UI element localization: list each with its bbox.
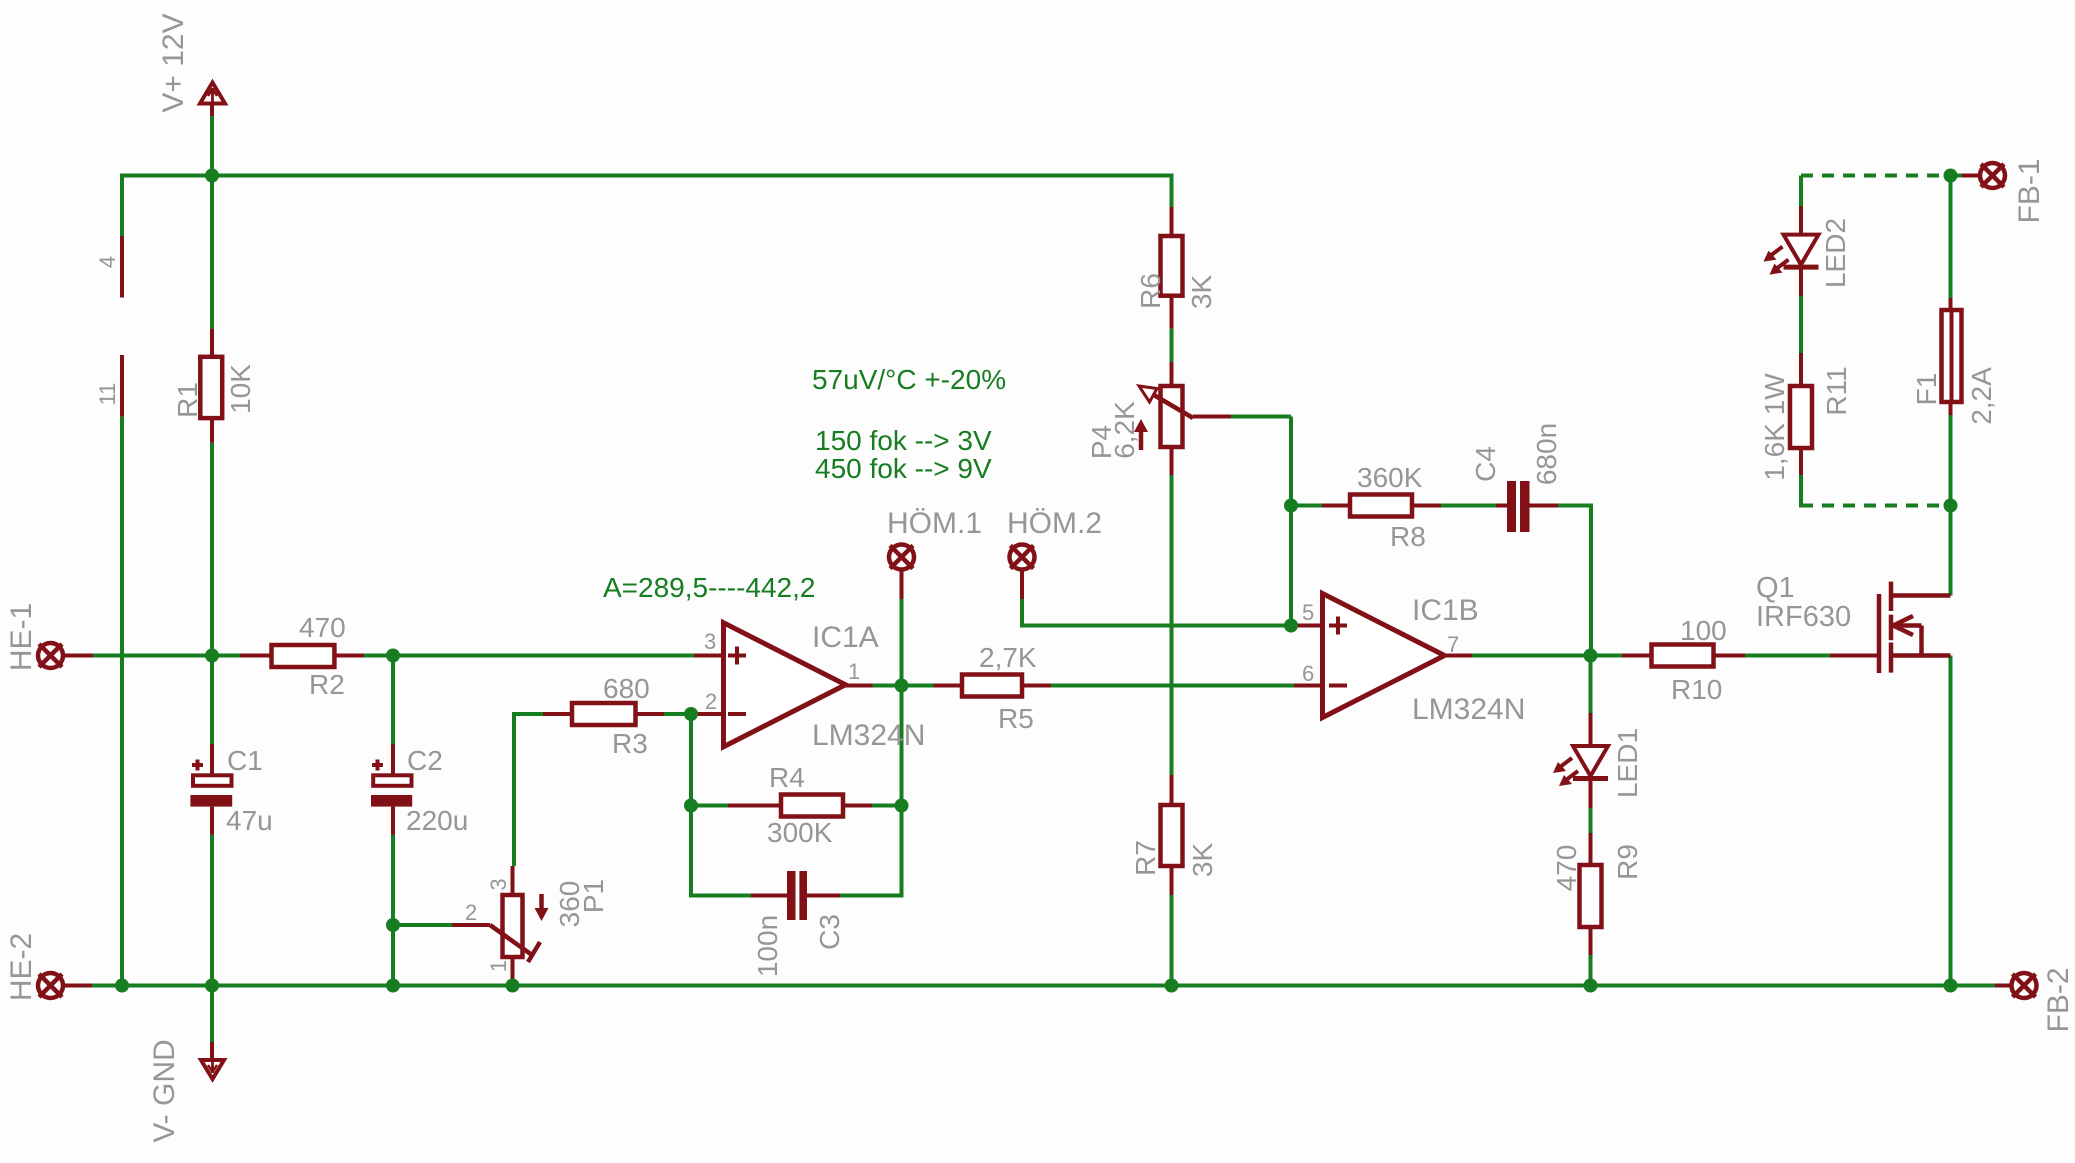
svg-text:V+ 12V: V+ 12V bbox=[157, 13, 190, 112]
svg-text:LM324N: LM324N bbox=[812, 719, 925, 752]
svg-text:680n: 680n bbox=[1531, 423, 1562, 485]
svg-text:HE-1: HE-1 bbox=[5, 603, 38, 671]
svg-text:R1: R1 bbox=[172, 382, 203, 418]
svg-text:R2: R2 bbox=[309, 669, 345, 700]
svg-text:Q1: Q1 bbox=[1756, 572, 1795, 604]
svg-text:HE-2: HE-2 bbox=[5, 933, 38, 1001]
svg-text:470: 470 bbox=[299, 612, 346, 643]
svg-text:6,2K: 6,2K bbox=[1109, 401, 1140, 459]
svg-text:C1: C1 bbox=[227, 745, 263, 776]
svg-text:100: 100 bbox=[1680, 615, 1727, 646]
svg-text:10K: 10K bbox=[225, 364, 256, 414]
svg-text:470: 470 bbox=[1551, 845, 1582, 892]
svg-text:220u: 220u bbox=[406, 805, 468, 836]
svg-text:2,7K: 2,7K bbox=[979, 642, 1037, 673]
svg-text:IC1A: IC1A bbox=[812, 621, 879, 654]
svg-text:R9: R9 bbox=[1612, 844, 1643, 880]
svg-text:47u: 47u bbox=[226, 805, 273, 836]
svg-text:FB-1: FB-1 bbox=[2013, 158, 2046, 223]
svg-text:150 fok --> 3V: 150 fok --> 3V bbox=[815, 425, 992, 456]
svg-text:11: 11 bbox=[95, 383, 120, 406]
svg-text:300K: 300K bbox=[767, 817, 833, 848]
svg-text:1,6K 1W: 1,6K 1W bbox=[1759, 373, 1790, 481]
svg-text:3K: 3K bbox=[1187, 843, 1218, 878]
svg-text:1: 1 bbox=[848, 659, 860, 684]
svg-text:LED2: LED2 bbox=[1820, 218, 1851, 288]
svg-text:5: 5 bbox=[1302, 600, 1314, 625]
svg-text:LED1: LED1 bbox=[1612, 728, 1643, 798]
svg-text:3: 3 bbox=[704, 629, 716, 654]
svg-text:R5: R5 bbox=[998, 703, 1034, 734]
svg-text:R11: R11 bbox=[1821, 366, 1852, 415]
svg-text:2,2A: 2,2A bbox=[1966, 367, 1997, 425]
svg-text:1: 1 bbox=[486, 960, 511, 972]
svg-text:2: 2 bbox=[705, 689, 717, 714]
svg-text:V- GND: V- GND bbox=[148, 1039, 181, 1142]
svg-text:100n: 100n bbox=[752, 915, 783, 977]
svg-text:IC1B: IC1B bbox=[1412, 594, 1479, 627]
svg-text:C4: C4 bbox=[1470, 446, 1501, 482]
svg-text:R8: R8 bbox=[1390, 521, 1426, 552]
svg-text:FB-2: FB-2 bbox=[2042, 967, 2075, 1032]
svg-text:R4: R4 bbox=[769, 762, 805, 793]
svg-text:HÖM.1: HÖM.1 bbox=[887, 507, 982, 540]
svg-text:P1: P1 bbox=[578, 879, 609, 913]
svg-text:A=289,5----442,2: A=289,5----442,2 bbox=[603, 572, 815, 603]
svg-text:F1: F1 bbox=[1911, 373, 1942, 406]
svg-text:C3: C3 bbox=[814, 914, 845, 950]
svg-text:R3: R3 bbox=[612, 728, 648, 759]
svg-text:57uV/°C +-20%: 57uV/°C +-20% bbox=[812, 364, 1006, 395]
svg-text:R7: R7 bbox=[1130, 840, 1161, 876]
svg-text:680: 680 bbox=[603, 673, 650, 704]
svg-text:360K: 360K bbox=[1357, 462, 1423, 493]
svg-text:R10: R10 bbox=[1671, 674, 1722, 705]
svg-text:C2: C2 bbox=[407, 745, 443, 776]
svg-text:3K: 3K bbox=[1186, 275, 1217, 310]
svg-text:6: 6 bbox=[1302, 661, 1314, 686]
svg-text:2: 2 bbox=[465, 900, 477, 925]
svg-text:R6: R6 bbox=[1135, 273, 1166, 309]
svg-text:4: 4 bbox=[95, 256, 120, 268]
svg-text:3: 3 bbox=[486, 878, 511, 890]
svg-text:7: 7 bbox=[1447, 632, 1459, 657]
svg-text:IRF630: IRF630 bbox=[1756, 601, 1851, 633]
svg-text:450 fok --> 9V: 450 fok --> 9V bbox=[815, 453, 992, 484]
svg-text:HÖM.2: HÖM.2 bbox=[1007, 507, 1102, 540]
svg-text:LM324N: LM324N bbox=[1412, 693, 1525, 726]
